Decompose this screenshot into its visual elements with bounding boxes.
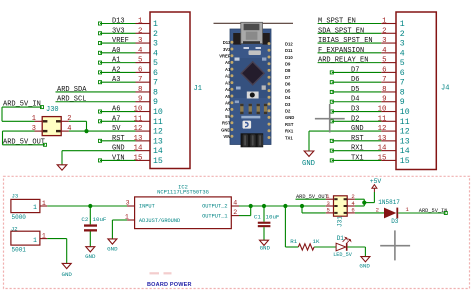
svg-text:10: 10 <box>400 108 410 117</box>
svg-text:4: 4 <box>153 49 158 58</box>
svg-text:2: 2 <box>400 30 405 39</box>
svg-text:A1: A1 <box>225 67 231 72</box>
svg-text:A0: A0 <box>225 60 231 65</box>
svg-text:3: 3 <box>126 200 130 207</box>
J31 pin stubs right <box>347 198 355 200</box>
svg-text:12: 12 <box>378 125 387 133</box>
svg-text:A7: A7 <box>112 115 120 123</box>
wire J4 pin 15 (TX1) <box>332 159 382 161</box>
J1 pin 11 stub <box>136 120 151 122</box>
svg-text:2: 2 <box>382 27 386 35</box>
svg-text:D13: D13 <box>223 40 231 45</box>
svg-text:7: 7 <box>153 79 158 88</box>
svg-text:GND: GND <box>85 253 96 260</box>
svg-text:1: 1 <box>42 232 46 239</box>
wire J1 pin 9 (ARD_SCL) <box>56 101 136 103</box>
svg-text:5V: 5V <box>225 114 230 119</box>
J1 pin 14 stub <box>136 150 151 152</box>
svg-text:A5: A5 <box>225 94 231 99</box>
connector J31 <box>334 196 348 216</box>
wire J1 pin 11 (A7) <box>100 120 136 122</box>
wire J1 pin 15 (VIN) <box>100 159 136 161</box>
svg-text:GND: GND <box>107 245 118 252</box>
svg-text:7: 7 <box>382 76 386 84</box>
svg-text:D7: D7 <box>351 66 359 74</box>
crosshair cursor bottom <box>380 245 410 247</box>
wire J4 pin 1 (M_SPST_EN) <box>318 23 382 25</box>
svg-text:10: 10 <box>153 108 163 117</box>
J1 pin 1 stub <box>136 23 151 25</box>
svg-text:3: 3 <box>153 40 158 49</box>
wire J30 pin4 to 5V net <box>69 130 87 132</box>
junction C1 tap <box>262 204 266 208</box>
wire to +5V symbol <box>364 202 374 204</box>
svg-text:8: 8 <box>400 88 405 97</box>
svg-text:1: 1 <box>153 20 158 29</box>
J1 pin 4 stub <box>136 52 151 54</box>
svg-text:15: 15 <box>153 157 163 166</box>
wire J2 to ground <box>47 238 66 240</box>
svg-text:SDA_SPST_EN: SDA_SPST_EN <box>318 27 364 35</box>
svg-text:5000: 5000 <box>12 214 27 221</box>
svg-text:D11: D11 <box>285 48 293 53</box>
svg-text:5: 5 <box>382 57 386 65</box>
J4 pin 1 stub <box>381 23 396 25</box>
svg-text:TX1: TX1 <box>285 135 293 140</box>
svg-text:A1: A1 <box>112 57 120 65</box>
svg-text:4: 4 <box>382 47 387 55</box>
svg-text:A2: A2 <box>225 74 231 79</box>
svg-text:3V3: 3V3 <box>223 47 231 52</box>
svg-text:1N5817: 1N5817 <box>378 199 400 206</box>
wire J30 pin2 to 5V net <box>69 120 87 122</box>
ground under J1 <box>57 165 67 170</box>
wire OUTPUT_1 join <box>239 215 251 217</box>
J1 pin 7 stub <box>136 81 151 83</box>
svg-text:13: 13 <box>153 137 163 146</box>
svg-text:2: 2 <box>138 27 142 35</box>
J1 pin 15 stub <box>136 159 151 161</box>
label ARD_5V_OUT <box>296 198 326 200</box>
J2 pin 1 stub <box>40 238 47 240</box>
svg-text:2: 2 <box>376 207 379 214</box>
wire J31 pin6 to D3 <box>355 212 384 214</box>
J30 pin stubs <box>35 120 43 122</box>
svg-text:A3: A3 <box>112 76 120 84</box>
svg-text:D9: D9 <box>285 62 291 67</box>
svg-text:D5: D5 <box>351 86 359 94</box>
junction J31 pin5 branch <box>300 204 304 208</box>
ground under IC2 ADJUST <box>108 239 117 244</box>
svg-text:D3: D3 <box>285 102 291 107</box>
label ARD_5V_OUT <box>3 144 46 146</box>
svg-text:7: 7 <box>400 79 405 88</box>
svg-text:J1: J1 <box>194 85 202 93</box>
J4 pin 3 stub <box>381 42 396 44</box>
J4 pin 11 stub <box>381 120 396 122</box>
J3 pin 1 stub <box>40 205 47 207</box>
J1 pin 3 stub <box>136 42 151 44</box>
svg-text:A7: A7 <box>225 107 231 112</box>
J1 pin 9 stub <box>136 101 151 103</box>
svg-text:14: 14 <box>378 145 387 153</box>
svg-text:13: 13 <box>134 135 143 143</box>
J4 pin 5 stub <box>381 62 396 64</box>
svg-text:8: 8 <box>153 88 158 97</box>
svg-text:TX1: TX1 <box>351 154 364 162</box>
wire J1 pin 1 (D13) <box>100 23 136 25</box>
svg-text:+5V: +5V <box>370 178 382 185</box>
wire J1 pin 2 (3V3) <box>100 32 136 34</box>
junction +5V branch <box>362 201 366 205</box>
sheet box BOARD POWER <box>4 176 470 288</box>
svg-text:ADJUST/GROUND: ADJUST/GROUND <box>139 218 180 224</box>
wire J31 pin2 to +5V <box>355 198 364 200</box>
svg-text:GND: GND <box>260 245 271 252</box>
svg-text:11: 11 <box>134 115 143 123</box>
svg-text:GND: GND <box>221 127 230 132</box>
wire J1 pin 12 (5V) <box>87 130 136 132</box>
wire J1 pin 3 (VREF) <box>100 42 136 44</box>
svg-text:A4: A4 <box>225 87 231 92</box>
svg-text:RX1: RX1 <box>285 129 294 134</box>
wire J4 pin 4 (F_EXPANSION) <box>318 52 382 54</box>
IC2 pin 4 stub (OUTPUT_2) <box>231 205 239 207</box>
svg-text:9: 9 <box>153 98 158 107</box>
svg-text:R1: R1 <box>290 238 297 245</box>
ground under J4 <box>304 151 314 156</box>
wire J31 pin4 to +5V <box>355 205 364 207</box>
svg-text:GND: GND <box>285 115 294 120</box>
svg-text:2: 2 <box>153 30 158 39</box>
ground under D1 <box>361 257 370 262</box>
crosshair cursor top <box>315 118 345 120</box>
wire J4 pin 7 (D6) <box>332 81 382 83</box>
svg-text:J30: J30 <box>46 106 59 114</box>
wire J4 GND branch <box>308 131 310 151</box>
J4 pin 15 stub <box>381 159 396 161</box>
svg-text:6: 6 <box>153 69 158 78</box>
svg-text:7: 7 <box>138 76 142 84</box>
svg-text:INPUT: INPUT <box>139 204 155 210</box>
svg-text:10: 10 <box>378 106 387 114</box>
svg-text:6: 6 <box>138 66 142 74</box>
svg-text:5: 5 <box>138 57 142 65</box>
svg-text:11: 11 <box>400 118 410 127</box>
wire J4 pin 13 (RST) <box>332 140 382 142</box>
svg-text:13: 13 <box>400 137 410 146</box>
svg-text:3V3: 3V3 <box>112 27 125 35</box>
wire J31 pin5 branch <box>301 206 303 213</box>
J1 pin 2 stub <box>136 32 151 34</box>
svg-text:6: 6 <box>400 69 405 78</box>
wire J3 to IC2 INPUT <box>47 205 127 207</box>
svg-text:1: 1 <box>125 213 129 220</box>
J1 pin 12 stub <box>136 130 151 132</box>
wire J1 pin 6 (A2) <box>100 71 136 73</box>
svg-text:10uF: 10uF <box>93 216 107 223</box>
svg-text:VIN: VIN <box>112 154 125 162</box>
svg-text:D2: D2 <box>351 115 359 123</box>
wire +5V to R1 <box>284 206 286 247</box>
svg-text:4: 4 <box>400 49 405 58</box>
svg-text:OUTPUT_1: OUTPUT_1 <box>202 213 227 219</box>
svg-text:ARD_5V_IN: ARD_5V_IN <box>419 208 448 214</box>
svg-text:D3: D3 <box>391 218 399 225</box>
svg-text:13: 13 <box>378 135 387 143</box>
power +5V <box>373 186 375 192</box>
J1 pin 10 stub <box>136 111 151 113</box>
svg-text:D10: D10 <box>285 55 293 60</box>
svg-text:D6: D6 <box>351 76 359 84</box>
svg-text:GND: GND <box>359 262 370 269</box>
ground under C2 <box>86 247 95 252</box>
IC2 pin 3 stub (INPUT) <box>127 205 135 207</box>
svg-text:VREF: VREF <box>112 37 129 45</box>
svg-text:5: 5 <box>326 207 329 214</box>
Arduino Nano module photo <box>214 22 295 147</box>
capacitor C2 <box>89 206 91 224</box>
svg-text:5001: 5001 <box>12 247 27 254</box>
junction 5V at J30 <box>84 129 88 133</box>
svg-text:5: 5 <box>153 59 158 68</box>
svg-text:ARD_RELAY_EN: ARD_RELAY_EN <box>318 57 368 65</box>
wire J1 pin 7 (A3) <box>100 81 136 83</box>
svg-text:4: 4 <box>138 47 143 55</box>
J1 pin 8 stub <box>136 91 151 93</box>
svg-text:6: 6 <box>382 66 386 74</box>
wire D3 to ARD_5V_IN <box>398 212 446 214</box>
J4 pin 2 stub <box>381 32 396 34</box>
svg-text:IBIAS_SPST_EN: IBIAS_SPST_EN <box>318 37 373 45</box>
svg-text:D13: D13 <box>112 18 125 26</box>
svg-text:5: 5 <box>400 59 405 68</box>
wire J1 pin 14 (GND) <box>62 150 136 152</box>
svg-text:D5: D5 <box>285 88 291 93</box>
svg-text:4: 4 <box>233 200 237 207</box>
wire +5V rail <box>239 205 326 207</box>
svg-text:5V: 5V <box>112 125 121 133</box>
svg-text:J4: J4 <box>441 85 449 93</box>
svg-text:RST: RST <box>222 121 231 126</box>
wire R1 to D1 <box>314 246 336 248</box>
connector J4 <box>396 12 436 170</box>
J4 pin 14 stub <box>381 150 396 152</box>
J1 pin 5 stub <box>136 62 151 64</box>
svg-text:RST: RST <box>351 135 364 143</box>
svg-text:D4: D4 <box>351 96 359 104</box>
svg-text:ARD_5V_OUT: ARD_5V_OUT <box>3 138 45 146</box>
J1 pin 6 stub <box>136 71 151 73</box>
svg-text:10uF: 10uF <box>266 213 280 220</box>
J31 pin stubs left <box>326 198 334 200</box>
svg-text:D3: D3 <box>351 106 359 114</box>
wire J30 pin1 to ARD_5V_IN <box>2 120 35 122</box>
svg-text:LED_5V: LED_5V <box>333 252 353 258</box>
J1 pin 13 stub <box>136 140 151 142</box>
svg-text:1: 1 <box>406 206 410 213</box>
svg-text:C1: C1 <box>254 213 261 220</box>
svg-text:VREF: VREF <box>219 54 231 59</box>
svg-text:A2: A2 <box>112 66 120 74</box>
svg-text:D7: D7 <box>285 75 291 80</box>
J4 pin 6 stub <box>381 71 396 73</box>
J4 pin 9 stub <box>381 101 396 103</box>
svg-text:RST: RST <box>285 122 294 127</box>
svg-text:3: 3 <box>382 37 386 45</box>
J4 pin 8 stub <box>381 91 396 93</box>
svg-text:14: 14 <box>153 147 163 156</box>
svg-text:D4: D4 <box>285 95 291 100</box>
svg-text:8: 8 <box>382 86 386 94</box>
connector J1 <box>150 12 190 169</box>
svg-text:GND: GND <box>112 145 125 153</box>
svg-text:D6: D6 <box>285 82 291 87</box>
svg-text:RST: RST <box>112 135 125 143</box>
J4 pin 4 stub <box>381 52 396 54</box>
wire J30 pin3 to ARD_5V_OUT <box>3 130 35 132</box>
wire IC2 ADJUST to ground <box>112 219 127 221</box>
wire J4 pin 12 (GND) <box>309 130 381 132</box>
svg-text:15: 15 <box>134 154 143 162</box>
svg-text:14: 14 <box>134 145 143 153</box>
wire J4 pin 11 (D2) <box>332 120 382 122</box>
svg-text:NCP1117LPST50T3G: NCP1117LPST50T3G <box>157 189 209 195</box>
capacitor C1 <box>263 206 265 222</box>
wire J4 pin 5 (ARD_RELAY_EN) <box>318 62 382 64</box>
svg-text:BOARD POWER: BOARD POWER <box>147 282 192 288</box>
svg-text:3: 3 <box>138 37 142 45</box>
label ARD_5V_IN <box>2 106 42 108</box>
svg-text:11: 11 <box>378 115 387 123</box>
svg-text:15: 15 <box>400 157 410 166</box>
svg-text:ARD_5V_OUT: ARD_5V_OUT <box>296 194 328 200</box>
svg-text:A0: A0 <box>112 47 120 55</box>
J4 pin 7 stub <box>381 81 396 83</box>
svg-text:J3: J3 <box>12 193 19 200</box>
svg-text:A6: A6 <box>225 100 231 105</box>
svg-text:9: 9 <box>400 98 405 107</box>
svg-text:1: 1 <box>138 18 143 26</box>
svg-text:M_SPST_EN: M_SPST_EN <box>318 18 356 26</box>
wire J1 pin 8 (ARD_SDA) <box>56 91 136 93</box>
wire J4 pin 8 (D5) <box>332 91 382 93</box>
svg-text:ARD_SCL: ARD_SCL <box>57 96 86 104</box>
svg-text:6: 6 <box>351 207 354 214</box>
svg-text:1: 1 <box>33 237 37 244</box>
IC2 pin 2 stub (OUTPUT_1) <box>231 215 239 217</box>
svg-text:C2: C2 <box>81 216 88 223</box>
svg-text:1: 1 <box>382 18 387 26</box>
svg-text:A3: A3 <box>225 80 231 85</box>
svg-text:D12: D12 <box>285 41 293 46</box>
wire J1 pin 10 (A6) <box>100 111 136 113</box>
junction LED branch <box>283 204 287 208</box>
ground under J2 <box>62 263 71 268</box>
svg-text:D8: D8 <box>285 68 291 73</box>
svg-text:11: 11 <box>153 118 163 127</box>
wire J1 pin 4 (A0) <box>100 52 136 54</box>
svg-text:1: 1 <box>33 204 37 211</box>
J4 pin 10 stub <box>381 111 396 113</box>
junction C2 tap <box>88 204 92 208</box>
svg-text:15: 15 <box>378 154 387 162</box>
wire J4 pin 14 (RX1) <box>332 150 382 152</box>
wire J4 pin 10 (D3) <box>332 111 382 113</box>
svg-text:12: 12 <box>153 128 163 137</box>
J4 pin 12 stub <box>381 130 396 132</box>
junction OUTPUT_1 <box>249 204 253 208</box>
IC2 pin 1 stub (ADJUST) <box>127 219 135 221</box>
svg-text:14: 14 <box>400 147 410 156</box>
wire J1 pin 5 (A1) <box>100 62 136 64</box>
svg-text:GND: GND <box>302 160 315 168</box>
svg-text:9: 9 <box>382 96 386 104</box>
svg-text:1K: 1K <box>313 238 320 245</box>
svg-text:RX1: RX1 <box>351 145 364 153</box>
svg-text:A6: A6 <box>112 106 120 114</box>
svg-text:12: 12 <box>400 128 410 137</box>
svg-text:GND: GND <box>61 271 72 278</box>
wire D1 to ground <box>348 246 366 248</box>
wire J4 pin 6 (D7) <box>332 71 382 73</box>
svg-text:ARD_SDA: ARD_SDA <box>57 86 87 94</box>
svg-text:GND: GND <box>351 125 364 133</box>
svg-text:9: 9 <box>138 96 142 104</box>
svg-text:12: 12 <box>134 125 143 133</box>
wire J4 pin 3 (IBIAS_SPST_EN) <box>318 42 382 44</box>
svg-text:3: 3 <box>400 40 405 49</box>
wire J4 pin 2 (SDA_SPST_EN) <box>318 32 382 34</box>
svg-text:8: 8 <box>138 86 142 94</box>
svg-text:10: 10 <box>134 106 143 114</box>
svg-text:1: 1 <box>42 200 46 207</box>
wire J1 pin 13 (RST) <box>100 140 136 142</box>
J4 pin 13 stub <box>381 140 396 142</box>
wire J4 pin 9 (D4) <box>332 101 382 103</box>
svg-text:1: 1 <box>400 20 405 29</box>
svg-text:D2: D2 <box>285 109 291 114</box>
wire J1 GND branch <box>61 151 63 165</box>
svg-text:F_EXPANSION: F_EXPANSION <box>318 47 364 55</box>
svg-text:OUTPUT_2: OUTPUT_2 <box>202 204 227 210</box>
svg-text:2: 2 <box>233 209 237 216</box>
svg-text:J31: J31 <box>337 216 344 227</box>
svg-text:ARD_5V_IN: ARD_5V_IN <box>3 101 41 109</box>
svg-text:VIN: VIN <box>223 134 230 139</box>
ground under C1 <box>260 240 269 245</box>
